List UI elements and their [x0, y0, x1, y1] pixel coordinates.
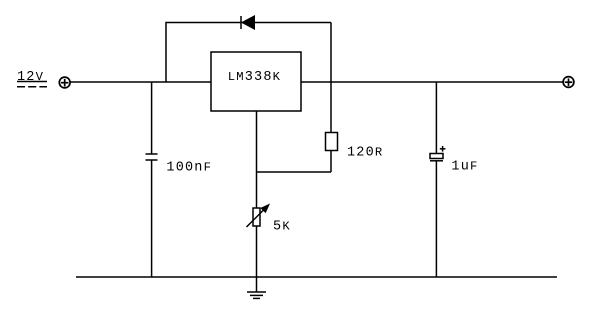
svg-text:12V: 12V — [17, 70, 44, 85]
svg-text:120R: 120R — [347, 145, 383, 160]
svg-text:LM338K: LM338K — [228, 70, 281, 85]
svg-text:5K: 5K — [273, 220, 291, 235]
svg-text:100nF: 100nF — [166, 161, 212, 176]
svg-text:1uF: 1uF — [451, 160, 478, 175]
